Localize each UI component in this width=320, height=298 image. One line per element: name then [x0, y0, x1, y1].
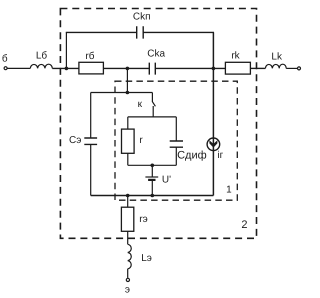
- svg-text:б: б: [2, 54, 8, 65]
- svg-text:к: к: [138, 99, 143, 110]
- svg-text:Lk: Lk: [271, 52, 283, 63]
- inner dashed box 1: [115, 81, 237, 200]
- node К junction dot: [212, 67, 216, 71]
- wire к to loop top: [152, 106, 154, 117]
- svg-text:Сдиф: Сдиф: [177, 149, 207, 161]
- capacitor Скп: [137, 26, 144, 38]
- outer dashed box 2: [60, 9, 256, 239]
- resistor rк: [225, 62, 250, 74]
- wire rэ upper lead: [127, 196, 129, 208]
- wire Скп left vertical: [65, 32, 67, 68]
- wire rк to Lк: [250, 67, 265, 69]
- wire Сдиф upper lead: [175, 117, 177, 141]
- wire Сэ branch upper: [90, 93, 92, 139]
- battery U' short plate: [148, 179, 155, 181]
- node rэ junction dot: [126, 194, 130, 198]
- wire rб to Ска: [103, 67, 148, 69]
- svg-text:Lэ: Lэ: [141, 253, 152, 264]
- wire Сэ branch lower: [90, 144, 92, 195]
- resistor rэ: [121, 207, 133, 231]
- node к stub: [151, 93, 153, 103]
- resistor r: [122, 129, 135, 153]
- node к slash: [152, 102, 155, 107]
- current source iг arrow: [209, 140, 217, 147]
- wire Скп right vertical down to main wire: [212, 32, 214, 68]
- wire Б' down to mid node: [126, 68, 128, 92]
- battery U' long plate: [145, 176, 158, 178]
- wire loop top: [128, 116, 177, 118]
- wire Lб to rб: [52, 67, 79, 69]
- inductor Lк: [265, 64, 286, 68]
- wire Сдиф lower lead: [175, 147, 177, 165]
- svg-text:iг: iг: [217, 150, 223, 161]
- node A junction dot: [65, 67, 69, 71]
- wire r lower lead: [127, 153, 129, 165]
- svg-text:Cka: Cka: [147, 48, 165, 59]
- svg-text:э: э: [125, 285, 130, 296]
- wire U' lower lead: [151, 181, 153, 196]
- inductor Lб: [30, 64, 52, 68]
- svg-text:r: r: [139, 135, 143, 146]
- terminal э: [126, 278, 129, 281]
- svg-text:rэ: rэ: [139, 214, 147, 225]
- wire iг vertical: [212, 68, 214, 195]
- wire б to Lб: [7, 67, 30, 69]
- node Б' junction dot: [126, 67, 130, 71]
- wire mid horizontal: [91, 92, 153, 94]
- wire r upper lead: [127, 117, 129, 129]
- wire Скп top right segment: [143, 31, 214, 33]
- current source iг circle: [207, 138, 220, 151]
- node U' top junction dot: [151, 164, 155, 168]
- capacitor Сдиф: [170, 141, 183, 147]
- wire Ска to rк: [156, 67, 226, 69]
- capacitor Сэ: [84, 138, 97, 144]
- wire U' upper lead: [151, 165, 153, 177]
- svg-text:rk: rk: [231, 51, 240, 62]
- wire rэ lower lead: [127, 231, 129, 244]
- wire bottom horizontal: [91, 195, 214, 197]
- wire Lк to terminal: [286, 67, 297, 69]
- svg-text:2: 2: [241, 219, 247, 231]
- inductor Lэ: [128, 244, 132, 268]
- resistor rб: [79, 62, 104, 74]
- svg-text:Ckп: Ckп: [133, 12, 151, 23]
- terminal к: [298, 67, 301, 70]
- svg-text:rб: rб: [85, 51, 94, 62]
- terminal б: [4, 67, 7, 70]
- svg-text:Lб: Lб: [36, 51, 48, 62]
- wire Скп top left segment: [66, 31, 137, 33]
- capacitor Ска: [149, 63, 155, 75]
- node Б' internal junction dot: [126, 91, 130, 95]
- svg-text:Сэ: Сэ: [69, 135, 81, 146]
- svg-text:1: 1: [226, 185, 232, 196]
- wire Lэ to terminal: [127, 269, 129, 278]
- node U' bottom junction dot: [151, 194, 155, 198]
- wire loop bottom: [128, 164, 177, 166]
- svg-text:U': U': [162, 174, 171, 185]
